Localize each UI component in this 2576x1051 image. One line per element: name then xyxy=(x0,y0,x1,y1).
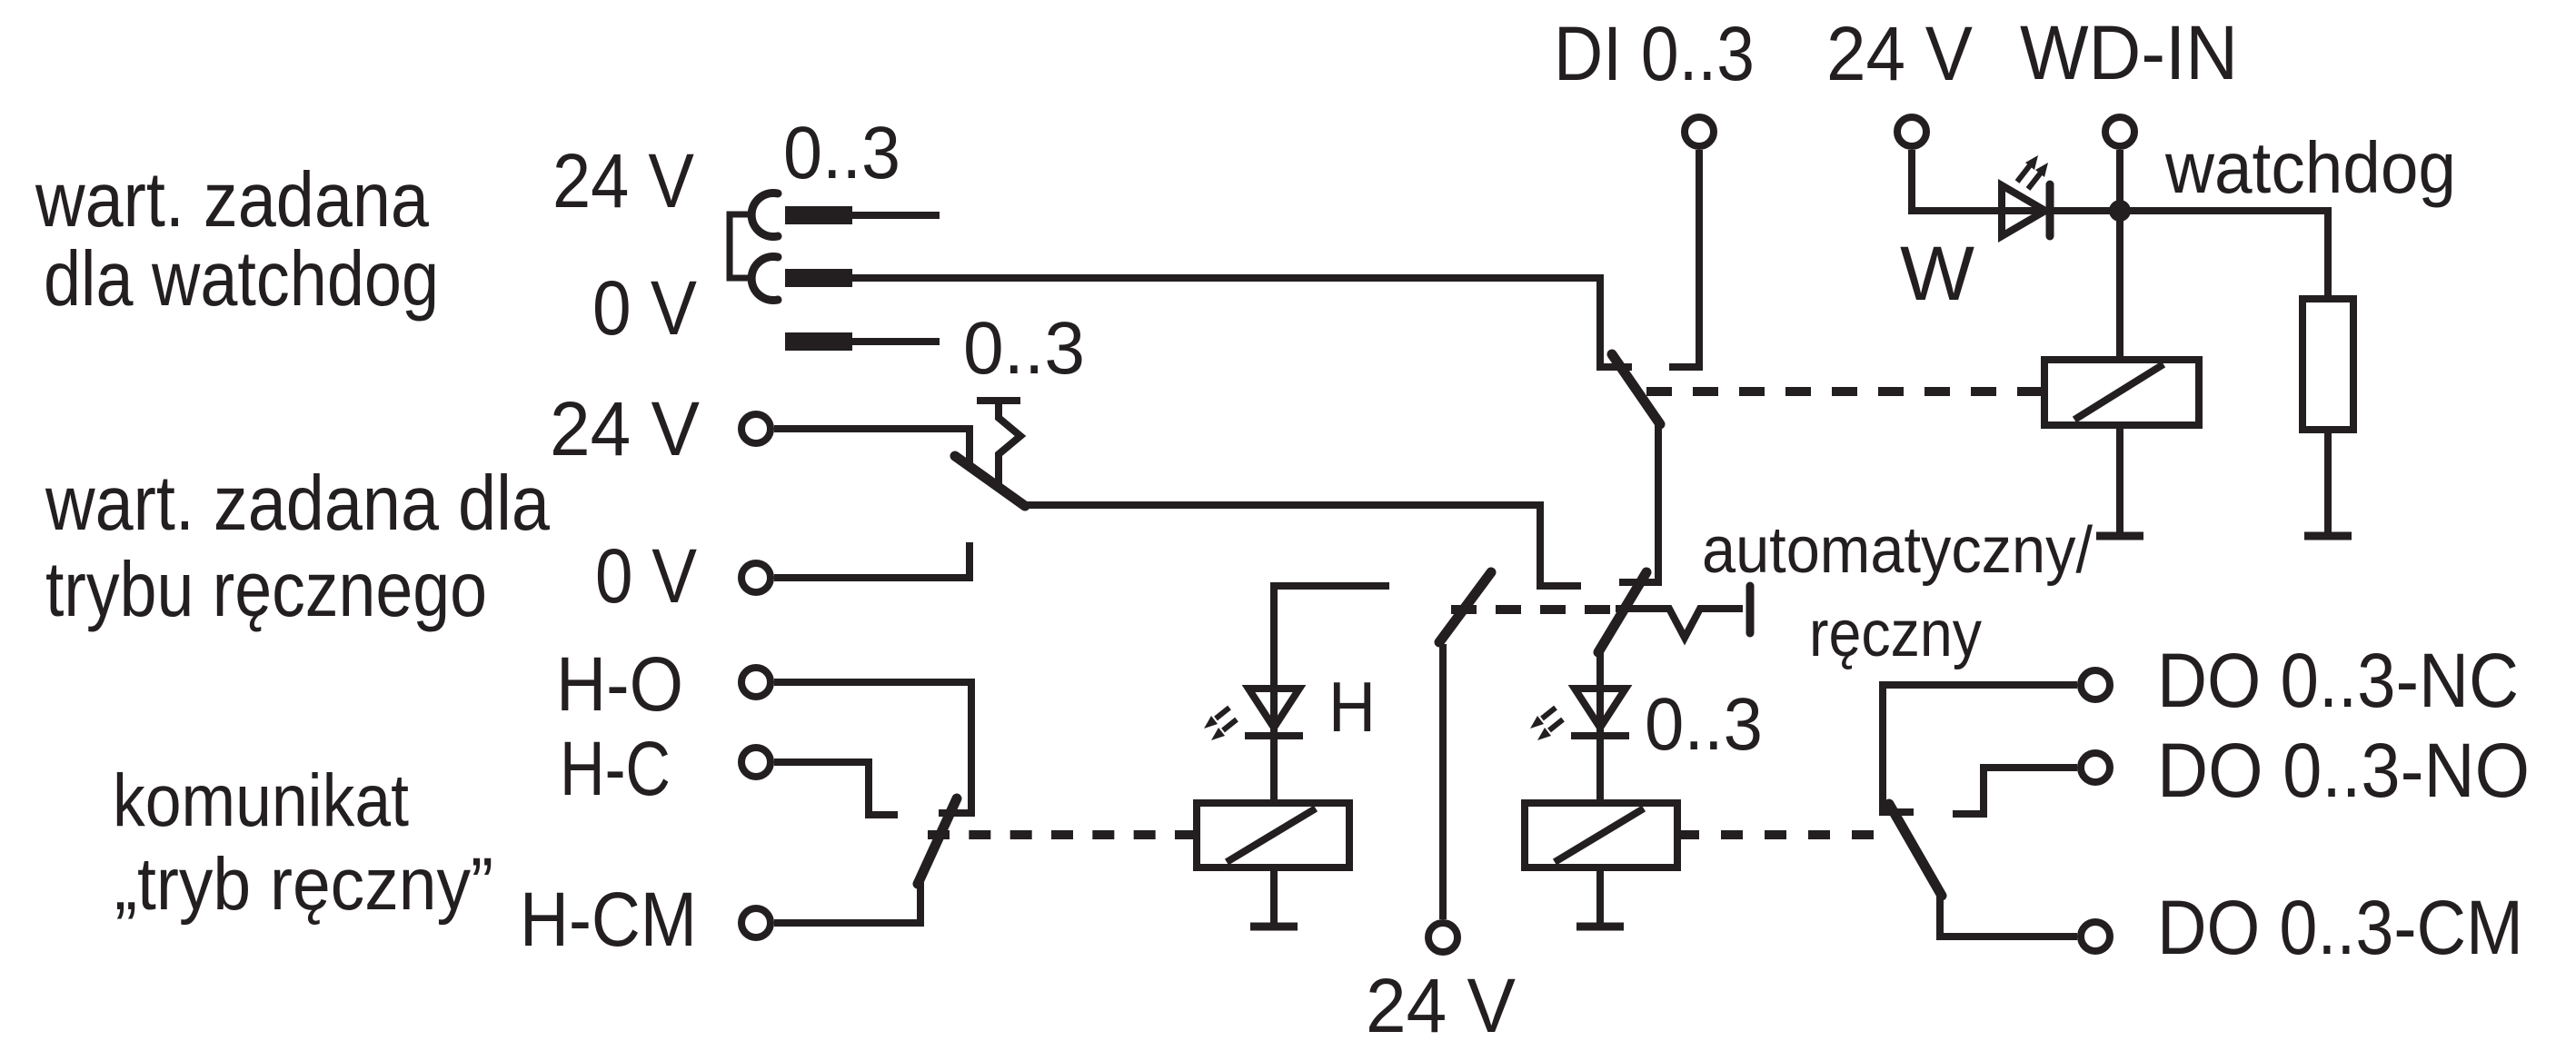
terminal H-CM xyxy=(741,908,771,937)
relay coil H xyxy=(1197,803,1349,868)
wire junction to resistor xyxy=(2120,211,2328,299)
LED W arrows xyxy=(2017,155,2048,189)
switch blade H message xyxy=(918,798,957,884)
terminal 0V manual xyxy=(741,563,771,592)
wire relay H to ground xyxy=(1270,868,1278,923)
switch blade auto (DI) xyxy=(1612,354,1660,424)
dashed link selector blades xyxy=(1451,605,1610,614)
LED W diode triangle xyxy=(2002,185,2045,236)
LED W cathode bar xyxy=(2046,184,2054,236)
svg-text:DO 0..3-NC: DO 0..3-NC xyxy=(2157,638,2519,723)
svg-text:dla watchdog: dla watchdog xyxy=(44,236,439,322)
actuator T-bar manual switch xyxy=(977,401,1020,490)
wire auto switch to selector contact xyxy=(1619,422,1658,582)
wire 24V bottom riser xyxy=(1439,644,1447,919)
svg-text:wart. zadana dla: wart. zadana dla xyxy=(45,461,551,547)
svg-text:0..3: 0..3 xyxy=(1645,683,1763,766)
LED H triangle xyxy=(1248,689,1299,728)
resistor R (watchdog load) xyxy=(2302,299,2353,430)
LED H cathode bar xyxy=(1245,732,1303,739)
LED 0..3 cathode bar xyxy=(1571,732,1629,739)
terminal WD-IN xyxy=(2105,117,2134,146)
svg-text:0 V: 0 V xyxy=(592,265,697,351)
wire 24V manual to switch pivot xyxy=(774,429,970,465)
svg-text:„tryb ręczny”: „tryb ręczny” xyxy=(114,843,493,926)
svg-text:24 V: 24 V xyxy=(1366,963,1516,1048)
svg-text:H-C: H-C xyxy=(560,726,671,811)
terminal DO 0..3-NO xyxy=(2081,753,2110,782)
terminal H-O xyxy=(741,668,771,697)
label automatyczny/reczny xyxy=(1702,514,2093,670)
relay coil 0..3 xyxy=(1525,803,1677,868)
dashed link H switch to relay H xyxy=(928,830,1197,839)
wire stub from spare pin xyxy=(852,338,940,345)
label wart. zadana dla trybu recznego xyxy=(45,461,551,633)
label wart. zadana dla watchdog xyxy=(35,157,439,322)
label komunikat tryb reczny xyxy=(113,759,493,926)
svg-text:0..3: 0..3 xyxy=(963,307,1085,390)
LED 0..3 triangle xyxy=(1575,689,1626,728)
svg-text:wart. zadana: wart. zadana xyxy=(35,157,430,243)
dashed link auto switch to watchdog relay xyxy=(1646,387,2044,396)
wire NC to contact xyxy=(1883,685,2077,812)
svg-text:DO 0..3-CM: DO 0..3-CM xyxy=(2157,885,2523,970)
svg-text:H: H xyxy=(1328,667,1376,747)
svg-text:komunikat: komunikat xyxy=(113,759,409,842)
terminal H-C xyxy=(741,748,771,777)
svg-text:24 V: 24 V xyxy=(550,386,700,471)
wire H-C to contact xyxy=(774,762,898,815)
wire 0V manual to open contact xyxy=(774,542,970,578)
wire 0V long run to auto switch xyxy=(852,278,1632,367)
terminal DI 0..3 xyxy=(1685,117,1714,146)
ground (relay H) xyxy=(1250,923,1298,931)
terminal 24V watchdog xyxy=(1897,117,1926,146)
LED 0..3 arrows xyxy=(1530,708,1563,740)
switch blade selector left xyxy=(1439,572,1491,642)
dashed link relay 0..3 to DO switch xyxy=(1677,830,1874,839)
svg-text:0 V: 0 V xyxy=(595,533,697,619)
node junction W/WD-IN xyxy=(2109,200,2131,222)
wire 24V to LED W xyxy=(1912,150,2120,211)
svg-text:watchdog: watchdog xyxy=(2164,127,2456,208)
terminal DO 0..3-CM xyxy=(2081,922,2110,951)
pin bar spare xyxy=(785,332,852,351)
svg-text:automatyczny/: automatyczny/ xyxy=(1702,514,2093,587)
wire WD-IN down to relay coil xyxy=(2116,150,2123,360)
svg-text:W: W xyxy=(1900,231,1974,316)
wire DO blade to CM terminal xyxy=(1940,893,2077,937)
terminal DO 0..3-NC xyxy=(2081,670,2110,699)
ground (resistor) xyxy=(2304,532,2352,540)
bracket joining socket contacts xyxy=(730,214,750,278)
wire NO to contact xyxy=(1953,768,2077,814)
ground (watchdog coil) xyxy=(2096,532,2143,540)
svg-text:DO 0..3-NO: DO 0..3-NO xyxy=(2157,728,2530,813)
wire H branch contact and LED feed xyxy=(1274,586,1389,803)
wire H-CM to switch pivot xyxy=(774,882,920,923)
wire stub from 24V pin xyxy=(852,212,940,219)
svg-text:ręczny: ręczny xyxy=(1809,598,1982,670)
svg-text:24 V: 24 V xyxy=(552,138,694,223)
wire manual feed to contact xyxy=(1022,505,1581,586)
wire relay 0..3 to ground xyxy=(1596,868,1604,923)
socket contact arc upper xyxy=(751,193,778,237)
terminal 24V manual xyxy=(741,414,771,443)
svg-text:0..3: 0..3 xyxy=(783,112,900,194)
wire resistor to ground xyxy=(2324,430,2332,532)
pin bar 0V xyxy=(785,269,852,287)
svg-text:H-CM: H-CM xyxy=(520,877,697,962)
LED H arrows xyxy=(1204,708,1237,740)
ground (relay 0..3) xyxy=(1576,923,1624,931)
switch blade manual 24V xyxy=(955,456,1025,506)
actuator selector T-bar xyxy=(1746,586,1755,633)
wire H-O to contact xyxy=(774,682,971,813)
svg-text:trybu ręcznego: trybu ręcznego xyxy=(45,547,487,633)
switch blade DO output xyxy=(1889,804,1942,896)
relay coil watchdog xyxy=(2044,360,2199,425)
wire selector to LED 0..3 xyxy=(1596,650,1604,803)
pin bar 24V xyxy=(785,206,852,224)
socket contact arc lower xyxy=(751,257,778,301)
actuator selector zigzag xyxy=(1616,609,1743,638)
wire DI down to contact xyxy=(1669,150,1699,367)
switch blade selector right xyxy=(1598,572,1646,652)
svg-text:WD-IN: WD-IN xyxy=(2020,10,2238,95)
svg-text:H-O: H-O xyxy=(556,641,683,727)
svg-text:24 V: 24 V xyxy=(1826,11,1973,96)
wire watchdog coil to ground xyxy=(2116,425,2123,532)
svg-text:DI 0..3: DI 0..3 xyxy=(1554,11,1755,96)
terminal 24V bottom xyxy=(1428,923,1457,952)
